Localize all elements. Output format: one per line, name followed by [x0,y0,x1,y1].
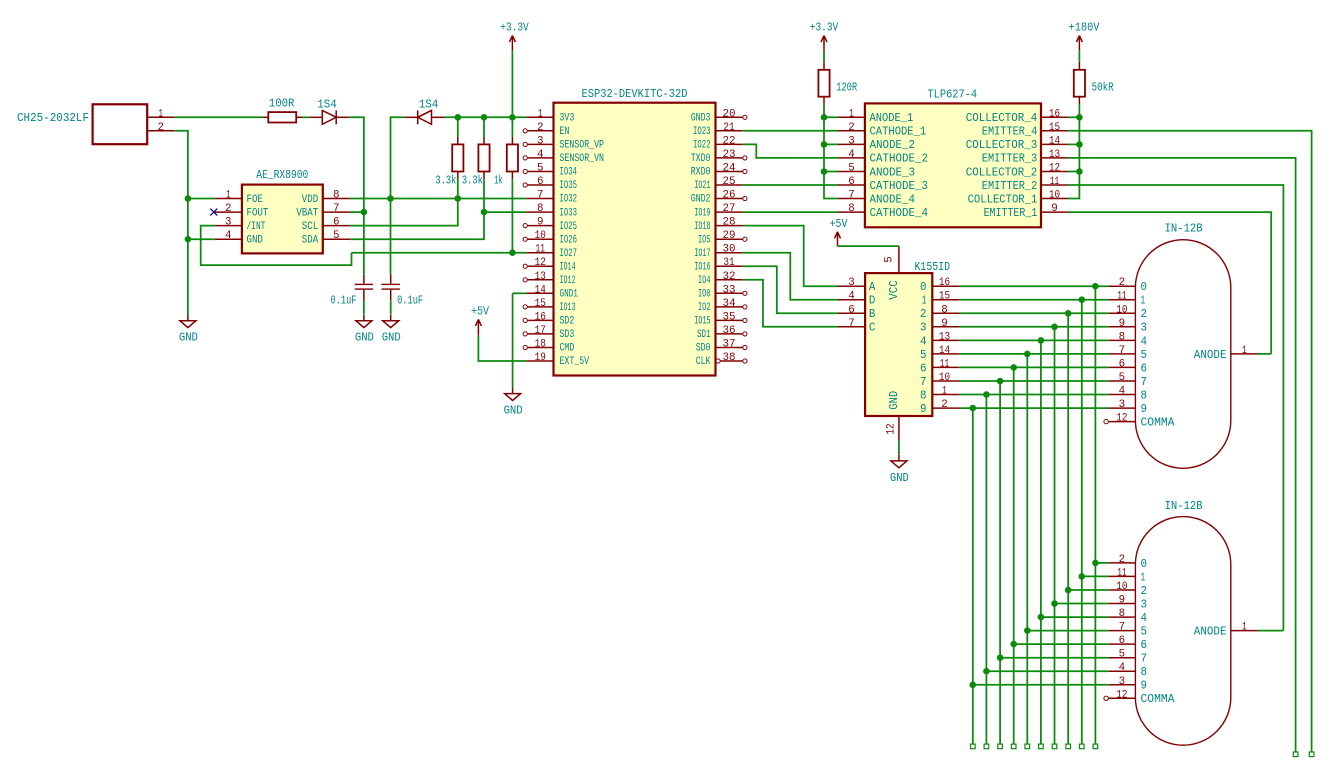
wire C1 to ground [363,300,365,314]
svg-text:12: 12 [886,423,898,434]
wire K155ID output 6 to tube V1 [959,366,1108,368]
svg-text:7: 7 [1141,376,1148,389]
svg-text:CMD: CMD [560,343,575,355]
TLP627-4 U3 pin 13 (EMITTER_3) [982,149,1068,166]
AE_RX8900 U1 pin 2 (FOUT) [215,203,269,219]
svg-text:13: 13 [939,331,950,343]
unconnected wire end [1052,744,1057,749]
svg-text:+180V: +180V [1069,21,1101,35]
nixie tube IN-12B V2 pin 5 (7) [1108,649,1147,666]
wire K155ID output 2 to tube V1 [959,312,1108,314]
svg-text:2: 2 [1141,585,1148,598]
unconnected wire end [1039,744,1044,749]
svg-text:GND: GND [890,471,909,485]
svg-text:SENSOR_VP: SENSOR_VP [560,140,605,152]
nixie tube IN-12B V1 pin 8 (4) [1108,331,1147,348]
svg-text:IO35: IO35 [560,180,578,192]
junction [997,654,1004,661]
junction [1051,324,1058,331]
svg-text:+5V: +5V [830,217,849,231]
wire IO19 to CATHODE_4 [743,211,838,213]
svg-text:12: 12 [1116,689,1127,701]
svg-text:IO13: IO13 [560,302,576,314]
svg-text:9: 9 [1051,203,1058,215]
svg-text:6: 6 [848,176,855,188]
svg-text:2: 2 [941,399,948,411]
svg-text:FOE: FOE [247,194,264,206]
svg-text:11: 11 [1117,291,1127,303]
svg-text:23: 23 [723,149,736,161]
ESP32 U2 pin 7 (IO32) [526,190,577,206]
wire IO17 to K155ID D [743,253,838,300]
K155ID U4 pin 13 (output 4) [920,331,959,348]
svg-text:3: 3 [920,322,927,335]
svg-text:120R: 120R [836,81,857,95]
wire output 0 to tube V2 [1095,562,1108,564]
svg-text:CH25-2032LF: CH25-2032LF [17,111,89,125]
wire 1k R4 to IO27 row [511,179,513,252]
nixie tube IN-12B V2 pin 7 (5) [1108,622,1147,639]
svg-text:1: 1 [1141,571,1146,584]
svg-text:2: 2 [225,203,232,215]
nixie tube IN-12B V1 pin 6 (6) [1108,358,1147,375]
AE_RX8900 U1 pin 5 (SDA) [302,230,350,246]
nixie tube IN-12B V2 pin 4 (8) [1108,662,1147,679]
nixie tube IN-12B V2 pin 12 (COMMA) [1104,689,1175,706]
unconnected wire end [998,744,1003,749]
nixie tube IN-12B V2 pin 8 (4) [1108,608,1147,625]
svg-text:3.3k: 3.3k [462,174,483,188]
K155ID U4 pin 6 (B) [838,304,875,321]
svg-text:8: 8 [1119,608,1126,620]
wire IO22 to CATHODE_2 [743,144,838,158]
svg-text:3: 3 [1141,598,1148,611]
wire output 0 vertical to tube V2 row [1094,286,1096,744]
unconnected wire end [984,744,989,749]
wire output 6 to tube V2 [1014,643,1109,645]
svg-text:9: 9 [537,217,544,229]
svg-text:EN: EN [560,126,570,138]
nixie tube IN-12B V2 pin 11 (1) [1108,567,1145,584]
unconnected wire end [1293,752,1298,757]
ESP32 U2 pin 13 (IO12) [523,271,575,287]
wire output 7 to tube V2 [1000,657,1108,659]
svg-text:COMMA: COMMA [1141,417,1175,430]
ESP32 U2 pin 17 (SD3) [523,325,574,341]
ESP32 U2 pin 35 (IO15) [694,311,747,327]
nixie tube IN-12B V2 body [1135,499,1230,745]
nixie tube IN-12B V1 pin 11 (1) [1108,291,1145,308]
TLP627-4 U3 pin 6 (CATHODE_3) [838,176,928,193]
svg-text:GND1: GND1 [560,289,578,301]
ESP32 U2 pin 4 (SENSOR_VN) [523,149,604,165]
wire collector rail to COLLECTOR_3 [1068,143,1079,145]
RTC module AE_RX8900 U1 body [242,168,323,253]
svg-text:2: 2 [537,122,544,134]
svg-text:16: 16 [939,277,950,289]
nixie tube IN-12B V1 pin 3 (9) [1108,399,1147,416]
junction [970,682,977,689]
svg-text:12: 12 [535,257,546,269]
BCD decoder K155ID U4 body [865,260,950,416]
svg-text:14: 14 [535,284,546,296]
K155ID U4 pin 2 (output 9) [920,399,959,416]
svg-text:1S4: 1S4 [419,98,439,112]
wire K155ID output 1 to tube V1 [959,299,1108,301]
nixie tube IN-12B V2 pin 9 (3) [1108,595,1147,612]
junction [1076,114,1083,121]
wire output 8 vertical to tube V2 row [985,395,987,745]
svg-text:3: 3 [1119,676,1126,688]
svg-text:EXT_5V: EXT_5V [560,356,590,368]
wire output 5 vertical to tube V2 row [1026,354,1028,744]
svg-text:IO33: IO33 [560,207,578,219]
svg-text:IO16: IO16 [694,261,710,273]
junction [1024,351,1031,358]
svg-text:CLK: CLK [696,356,711,368]
svg-text:3.3k: 3.3k [435,174,456,188]
wire D2 cathode down to VDD/C2 [391,117,405,274]
TLP627-4 U3 pin 2 (CATHODE_1) [838,122,926,139]
svg-text:5: 5 [1141,349,1148,362]
nixie tube IN-12B V2 pin 1 (ANODE) [1194,622,1258,639]
resistor 120R R5 [818,62,857,105]
svg-text:IO23: IO23 [693,126,711,138]
unconnected wire end [1011,744,1016,749]
svg-text:9: 9 [1119,595,1126,607]
svg-text:0.1uF: 0.1uF [397,294,423,308]
svg-text:ANODE_3: ANODE_3 [870,166,916,179]
wire K155ID output 9 to tube V1 [959,407,1108,409]
svg-text:10: 10 [535,230,546,242]
svg-text:10: 10 [1116,581,1127,593]
svg-text:ANODE: ANODE [1194,349,1227,362]
svg-text:COLLECTOR_4: COLLECTOR_4 [966,112,1038,125]
svg-text:AE_RX8900: AE_RX8900 [256,168,308,182]
svg-text:25: 25 [723,176,736,188]
svg-text:C: C [869,322,876,335]
svg-text:VCC: VCC [888,280,901,300]
svg-text:10: 10 [1049,190,1060,202]
ESP32 U2 pin 5 (IO34) [523,163,577,179]
svg-text:22: 22 [723,135,736,147]
TLP627-4 U3 pin 5 (ANODE_3) [838,163,915,180]
TLP627-4 U3 pin 15 (EMITTER_4) [982,122,1068,139]
wire anode rail to ANODE_2 [824,143,838,145]
K155ID U4 pin 10 (output 7) [920,372,959,389]
ESP32 U2 pin 32 (IO4) [698,271,743,287]
svg-text:9: 9 [1141,680,1148,693]
svg-text:IO14: IO14 [560,261,576,273]
svg-text:4: 4 [848,291,855,303]
svg-text:16: 16 [1049,108,1060,120]
wire anode rail (120R) down to ANODE_4 [824,117,838,198]
svg-text:ESP32-DEVKITC-32D: ESP32-DEVKITC-32D [582,87,688,101]
K155ID U4 pin 1 (output 8) [920,386,959,403]
resistor 100R [263,97,303,123]
svg-text:6: 6 [848,304,855,316]
svg-text:16: 16 [535,311,546,323]
svg-text:IO34: IO34 [560,167,578,179]
junction [821,141,828,148]
junction [997,378,1004,385]
nixie tube IN-12B V1 pin 12 (COMMA) [1104,413,1175,430]
svg-text:IO25: IO25 [560,221,578,233]
wire ESP32 GND1 [513,292,527,294]
svg-text:7: 7 [1141,653,1148,666]
wire SCL riser to 3.3k R2 [350,179,458,225]
svg-text:0: 0 [1141,558,1148,571]
wire K155ID output 3 to tube V1 [959,326,1108,328]
svg-text:8: 8 [1119,331,1126,343]
svg-text:5: 5 [1141,626,1148,639]
svg-text:34: 34 [723,298,736,310]
svg-text:5: 5 [1119,649,1126,661]
wire collector rail (50kR) down to COLLECTOR_1 [1068,117,1079,198]
svg-text:8: 8 [920,389,927,402]
svg-text:5: 5 [848,163,855,175]
ESP32 U2 pin 33 (IO0) [698,284,747,300]
K155ID U4 pin 11 (output 6) [920,358,959,375]
svg-text:32: 32 [723,271,736,283]
svg-text:2: 2 [920,308,927,321]
AE_RX8900 U1 pin 1 (FOE) [215,190,263,206]
junction [821,114,828,121]
svg-text:3: 3 [537,135,544,147]
wire anode rail to ANODE_1 [824,116,838,118]
wire +3.3V row to ESP32 pin 1 [445,116,527,118]
wire RX8900 GND to ground rail [188,238,215,240]
svg-text:ANODE_2: ANODE_2 [870,139,916,152]
wire output 6 vertical to tube V2 row [1013,367,1015,744]
AE_RX8900 U1 pin 4 (GND) [215,230,263,246]
junction [185,236,192,243]
svg-text:4: 4 [1141,612,1148,625]
wire K155ID output 7 to tube V1 [959,380,1108,382]
nixie tube IN-12B V1 pin 2 (0) [1108,277,1147,294]
svg-text:CATHODE_3: CATHODE_3 [870,180,929,193]
wire output 1 vertical to tube V2 row [1081,300,1083,744]
junction [1051,600,1058,607]
ground (C1) [355,315,374,345]
svg-text:19: 19 [535,352,546,364]
svg-text:2: 2 [848,122,855,134]
svg-text:2: 2 [157,122,164,134]
wire +3.3V down to 1k R4 [511,50,513,136]
wire GND1 down to ground [512,293,514,387]
nixie tube IN-12B V2 pin 3 (9) [1108,676,1147,693]
svg-text:EMITTER_4: EMITTER_4 [982,126,1038,139]
junction [1092,560,1099,567]
diode 1S4 D2 [405,98,445,125]
svg-text:2: 2 [1119,277,1126,289]
svg-text:4: 4 [920,335,927,348]
junction [481,209,488,216]
ESP32 U2 pin 38 (CLK) [696,352,747,368]
svg-text:IO17: IO17 [694,248,710,260]
ESP32 U2 pin 22 (IO22) [693,135,743,151]
svg-text:SCL: SCL [302,221,318,233]
svg-text:IO22: IO22 [693,140,711,152]
wire output 1 to tube V2 [1082,575,1109,577]
svg-text:12: 12 [1116,413,1127,425]
svg-text:7: 7 [537,190,544,202]
TLP627-4 U3 pin 9 (EMITTER_1) [984,203,1068,220]
power +5V (left of ESP32) [471,304,490,335]
svg-text:IO21: IO21 [694,180,710,192]
ESP32 U2 pin 1 (3V3) [526,108,574,124]
optocoupler TLP627-4 U3 body [865,88,1041,228]
wire output 2 to tube V2 [1068,589,1108,591]
svg-text:GND: GND [504,404,523,418]
ESP32 U2 pin 31 (IO16) [694,257,742,273]
wire EMITTER_2 to tube V2 anode [1068,185,1283,631]
svg-text:GND: GND [888,391,901,410]
svg-text:15: 15 [939,291,950,303]
svg-text:3: 3 [1141,322,1148,335]
no-connect X on AE_RX8900 pin 2 (FOUT) [210,209,217,216]
power +3.3V (top left) [500,21,529,51]
junction [1038,337,1045,344]
svg-text:17: 17 [535,325,546,337]
svg-text:1: 1 [922,295,927,308]
svg-text:ANODE: ANODE [1194,626,1227,639]
wire VBAT to C1 [350,211,364,213]
svg-text:37: 37 [723,339,736,351]
ESP32 U2 pin 28 (IO18) [694,217,742,233]
svg-text:SDA: SDA [302,235,319,247]
svg-text:IN-12B: IN-12B [1165,222,1203,236]
svg-text:SD3: SD3 [560,329,575,341]
svg-text:18: 18 [535,339,546,351]
junction [983,668,990,675]
ground (battery) [179,315,198,345]
svg-text:0: 0 [920,281,927,294]
wire tube V2 ANODE [1258,630,1284,632]
svg-text:SD0: SD0 [696,343,711,355]
capacitor 0.1uF C1 [355,274,373,300]
svg-text:20: 20 [723,108,736,120]
K155ID U4 pin 12 (GND) [886,391,902,441]
svg-text:TXD0: TXD0 [691,153,711,165]
svg-text:26: 26 [723,190,736,202]
resistor 3.3k R3 [462,137,490,188]
junction [1065,310,1072,317]
junction [1076,141,1083,148]
svg-text:1k: 1k [494,174,503,188]
svg-text:8: 8 [1141,389,1148,402]
K155ID U4 pin 3 (A) [838,277,875,294]
svg-text:CATHODE_2: CATHODE_2 [870,153,929,166]
wire output 9 to tube V2 [973,684,1109,686]
svg-text:8: 8 [848,203,855,215]
ESP32 U2 pin 14 (GND1) [526,284,578,300]
ESP32 U2 pin 30 (IO17) [694,244,742,260]
svg-text:CATHODE_1: CATHODE_1 [870,126,927,139]
unconnected wire end [1093,744,1098,749]
nixie tube IN-12B V1 pin 1 (ANODE) [1194,345,1258,362]
nixie tube IN-12B V1 pin 4 (8) [1108,386,1147,403]
svg-text:15: 15 [535,298,546,310]
svg-text:2: 2 [1119,554,1126,566]
svg-text:11: 11 [1117,567,1127,579]
MCU board ESP32-DEVKITC-32D U2 body [554,87,716,376]
resistor 1k R4 [494,137,518,188]
wire battery pin1 to 100R [174,116,262,118]
junction [1010,364,1017,371]
svg-text:6: 6 [1141,362,1148,375]
resistor 50kR R6 [1074,62,1114,105]
K155ID U4 pin 8 (output 2) [920,304,959,321]
svg-text:IO27: IO27 [560,248,578,260]
ESP32 U2 pin 10 (IO26) [523,230,577,246]
svg-text:7: 7 [1119,345,1126,357]
junction [1024,627,1031,634]
svg-text:CATHODE_4: CATHODE_4 [870,207,929,220]
svg-text:36: 36 [723,325,736,337]
junction [455,195,462,202]
wire output 3 vertical to tube V2 row [1054,327,1056,744]
svg-text:1: 1 [1141,295,1146,308]
junction [185,195,192,202]
resistor 3.3k R2 [435,137,463,188]
svg-text:4: 4 [1119,386,1126,398]
wire output 3 to tube V2 [1055,603,1109,605]
ESP32 U2 pin 9 (IO25) [523,217,577,233]
svg-text:15: 15 [1049,122,1060,134]
svg-text:3V3: 3V3 [560,113,575,125]
TLP627-4 U3 pin 8 (CATHODE_4) [838,203,928,220]
K155ID U4 pin 5 (VCC) [884,246,902,300]
wire K155ID output 4 to tube V1 [959,339,1108,341]
svg-text:SD2: SD2 [560,316,575,328]
svg-text:13: 13 [535,271,546,283]
svg-text:4: 4 [1141,335,1148,348]
TLP627-4 U3 pin 10 (COLLECTOR_1) [968,190,1068,207]
wire 120R to anode rail [823,105,825,118]
ESP32 U2 pin 20 (GND3) [691,108,747,124]
svg-text:38: 38 [723,352,736,364]
svg-text:50kR: 50kR [1092,81,1114,95]
ESP32 U2 pin 11 (IO27) [526,244,577,260]
wire +3.3V to 120R [823,50,825,61]
svg-text:9: 9 [920,403,927,416]
svg-text:4: 4 [537,149,544,161]
nixie tube IN-12B V2 pin 10 (2) [1108,581,1147,598]
svg-text:ANODE_4: ANODE_4 [870,193,916,206]
junction [361,209,368,216]
wire IO21 to CATHODE_3 [743,184,838,186]
svg-text:0.1uF: 0.1uF [331,294,357,308]
svg-text:14: 14 [1049,135,1060,147]
svg-text:9: 9 [941,318,948,330]
svg-text:RXD0: RXD0 [691,167,711,179]
battery holder pin 2 [147,122,174,134]
wire output 5 to tube V2 [1027,630,1108,632]
svg-text:GND: GND [179,331,198,345]
wire collector rail to COLLECTOR_2 [1068,171,1079,173]
svg-text:0: 0 [1141,281,1148,294]
ESP32 U2 pin 15 (IO13) [523,298,575,314]
svg-text:3: 3 [848,135,855,147]
ground (K155ID) [890,455,909,485]
wire /INT to IO27 net [201,226,352,266]
nixie tube IN-12B V1 pin 5 (7) [1108,372,1147,389]
svg-text:FOUT: FOUT [247,207,269,219]
svg-text:IO12: IO12 [560,275,576,287]
power +5V (above K155ID) [830,217,849,246]
ESP32 U2 pin 8 (IO33) [526,203,577,219]
